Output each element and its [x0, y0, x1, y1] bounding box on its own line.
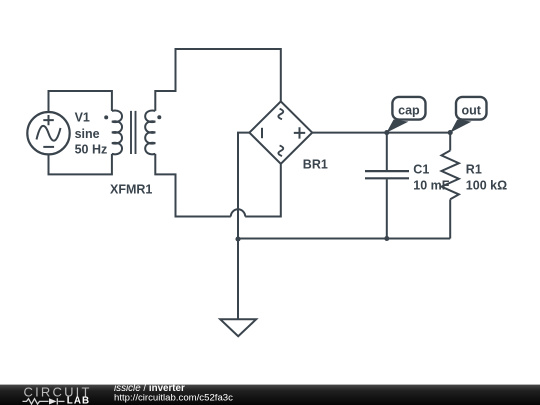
svg-text:XFMR1: XFMR1 — [110, 183, 152, 197]
core lines — [131, 111, 136, 154]
wire ground stem — [237, 239, 239, 319]
primary winding — [112, 111, 122, 155]
phase dot primary — [104, 115, 108, 119]
minus mark — [261, 128, 263, 138]
wire hop over ground wire — [231, 209, 245, 216]
junction dot ground node — [235, 236, 240, 241]
svg-text:http://circuitlab.com/c52fa3c: http://circuitlab.com/c52fa3c — [114, 393, 233, 404]
capacitor C1 — [365, 171, 409, 178]
wire cap bottom lead — [386, 179, 388, 238]
svg-text:BR1: BR1 — [303, 157, 328, 171]
svg-text:R1: R1 — [466, 162, 482, 176]
secondary winding — [145, 111, 155, 155]
wire bridge left to ground branch — [238, 133, 249, 239]
wire primary top loop — [49, 91, 112, 112]
node out tag — [450, 97, 486, 133]
wire ground rail — [238, 238, 450, 240]
resistor R1 — [442, 151, 459, 200]
svg-text:V1: V1 — [75, 111, 90, 125]
svg-text:cap: cap — [398, 104, 420, 118]
wire secondary top staircase to bridge — [155, 49, 280, 111]
wire resistor bottom lead — [449, 199, 451, 238]
logo waveform — [23, 398, 65, 404]
wire primary bottom loop — [49, 154, 112, 175]
node dot out — [448, 130, 453, 135]
phase dot secondary — [157, 115, 161, 119]
wire cap top lead — [386, 133, 388, 171]
svg-text:out: out — [461, 104, 481, 118]
logo diode — [49, 398, 57, 404]
transformer XFMR1 — [112, 111, 155, 155]
wire secondary bottom staircase — [155, 154, 231, 217]
node dot cap — [384, 130, 389, 135]
junction dot cap bottom — [384, 236, 389, 241]
ground symbol — [220, 319, 256, 336]
wire bridge right to out node — [312, 132, 450, 134]
AC tilde bottom — [278, 146, 283, 157]
svg-text:50 Hz: 50 Hz — [75, 143, 108, 157]
plus mark — [294, 127, 305, 138]
voltage source V1 — [27, 112, 69, 154]
svg-text:100 kΩ: 100 kΩ — [466, 178, 507, 192]
node cap tag — [387, 97, 426, 133]
wire resistor top lead — [449, 133, 451, 151]
svg-text:C1: C1 — [413, 162, 429, 176]
wire hop to bridge bottom — [245, 164, 281, 216]
svg-text:sine: sine — [75, 127, 100, 141]
AC tilde top — [278, 109, 283, 120]
bridge rectifier BR1 — [249, 101, 312, 163]
svg-text:LAB: LAB — [67, 395, 90, 405]
